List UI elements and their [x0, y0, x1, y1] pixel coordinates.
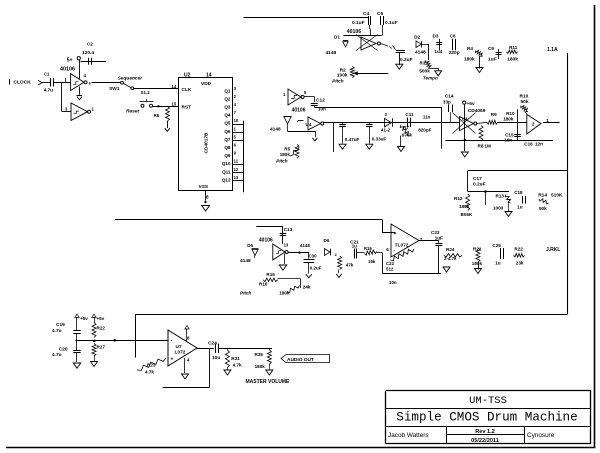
- svg-text:1u4: 1u4: [434, 49, 442, 54]
- svg-text:23k: 23k: [516, 261, 524, 266]
- svg-text:Simple CMOS Drum Machine: Simple CMOS Drum Machine: [396, 411, 577, 425]
- svg-text:R4: R4: [467, 46, 473, 51]
- svg-text:R8: R8: [478, 144, 484, 149]
- svg-text:D6: D6: [324, 238, 330, 243]
- svg-text:Q11: Q11: [222, 169, 231, 174]
- svg-text:Rev 1.2: Rev 1.2: [475, 429, 495, 435]
- svg-text:U7: U7: [176, 344, 182, 350]
- svg-text:1.1A: 1.1A: [547, 47, 558, 53]
- svg-text:R13: R13: [496, 193, 505, 198]
- svg-text:180k: 180k: [503, 117, 514, 122]
- svg-text:1uF: 1uF: [435, 236, 443, 241]
- svg-text:510K: 510K: [551, 192, 563, 198]
- svg-text:40106: 40106: [60, 66, 75, 72]
- svg-text:R22: R22: [97, 326, 106, 331]
- svg-text:1u: 1u: [517, 205, 523, 210]
- svg-text:180k: 180k: [459, 204, 470, 209]
- svg-text:C25: C25: [492, 243, 501, 248]
- svg-text:820pF: 820pF: [418, 127, 431, 132]
- svg-text:C17: C17: [473, 176, 482, 182]
- svg-text:Jacob Watters: Jacob Watters: [388, 432, 429, 439]
- svg-text:1u: 1u: [495, 261, 501, 266]
- svg-text:33p: 33p: [443, 99, 451, 104]
- svg-text:B05K: B05K: [461, 212, 473, 217]
- svg-text:Q2: Q2: [224, 96, 231, 101]
- svg-text:Q9: Q9: [224, 153, 231, 158]
- svg-text:U2: U2: [184, 72, 191, 78]
- svg-text:2-4.7k: 2-4.7k: [444, 256, 457, 261]
- svg-text:24k: 24k: [303, 284, 311, 289]
- svg-text:C13: C13: [284, 227, 293, 233]
- svg-text:180k: 180k: [255, 364, 266, 369]
- svg-text:R9: R9: [491, 112, 497, 117]
- svg-text:R6: R6: [154, 113, 160, 118]
- svg-text:11: 11: [234, 159, 239, 164]
- svg-text:180k: 180k: [279, 290, 290, 295]
- svg-text:4148: 4148: [326, 50, 337, 56]
- svg-text:C22: C22: [386, 261, 395, 266]
- svg-text:180k: 180k: [280, 152, 291, 157]
- svg-text:120.4: 120.4: [82, 50, 94, 56]
- svg-text:R11: R11: [509, 45, 518, 50]
- svg-text:U4: U4: [306, 122, 312, 127]
- svg-text:D2: D2: [414, 34, 420, 39]
- svg-text:15k: 15k: [368, 259, 376, 264]
- svg-text:Q10: Q10: [222, 161, 231, 166]
- svg-text:Reset: Reset: [126, 108, 139, 114]
- svg-text:13: 13: [234, 175, 239, 180]
- svg-text:05/22/2011: 05/22/2011: [471, 438, 499, 444]
- svg-text:R3: R3: [420, 60, 426, 65]
- svg-text:C1: C1: [44, 72, 50, 77]
- svg-text:512: 512: [386, 267, 394, 272]
- svg-text:D3: D3: [433, 34, 439, 39]
- svg-text:7: 7: [420, 237, 423, 242]
- svg-text:VDD: VDD: [201, 81, 212, 87]
- svg-text:40106: 40106: [292, 108, 306, 114]
- svg-text:CD4069: CD4069: [468, 108, 486, 114]
- svg-text:R10: R10: [520, 93, 529, 99]
- svg-text:Tempo: Tempo: [423, 76, 438, 81]
- svg-text:Q8: Q8: [224, 145, 231, 150]
- svg-text:4.7k: 4.7k: [145, 370, 154, 375]
- svg-text:MASTER VOLUME: MASTER VOLUME: [246, 379, 291, 385]
- svg-text:J.RKL: J.RKL: [546, 247, 560, 253]
- svg-text:Pitch: Pitch: [276, 159, 287, 164]
- svg-text:0.47uF: 0.47uF: [345, 137, 360, 142]
- svg-text:R19: R19: [364, 246, 372, 251]
- svg-text:VSS: VSS: [199, 184, 209, 190]
- svg-text:R22: R22: [514, 247, 523, 252]
- svg-text:180k: 180k: [464, 57, 475, 63]
- svg-text:R27: R27: [97, 345, 106, 350]
- svg-text:12: 12: [234, 167, 239, 172]
- svg-text:R2: R2: [340, 67, 346, 73]
- svg-text:50k: 50k: [539, 206, 547, 211]
- svg-text:+: +: [171, 357, 174, 363]
- svg-text:47k: 47k: [346, 262, 354, 267]
- svg-text:11n: 11n: [423, 115, 431, 120]
- svg-text:50k: 50k: [521, 99, 529, 105]
- svg-text:+5v: +5v: [467, 101, 475, 107]
- svg-text:0.2uF: 0.2uF: [400, 57, 413, 63]
- svg-text:40106: 40106: [259, 238, 273, 244]
- svg-text:1: 1: [546, 118, 549, 123]
- svg-text:1u: 1u: [352, 244, 357, 249]
- svg-text:U3: U3: [462, 117, 468, 122]
- svg-text:Q7: Q7: [224, 137, 231, 142]
- svg-text:C12: C12: [316, 98, 325, 104]
- svg-text:CLOCK: CLOCK: [13, 80, 31, 86]
- svg-text:R24: R24: [446, 247, 455, 252]
- svg-text:10: 10: [234, 118, 239, 123]
- svg-text:C11: C11: [405, 112, 414, 117]
- svg-text:13: 13: [284, 242, 289, 247]
- svg-text:+: +: [394, 231, 397, 237]
- svg-text:Pitch: Pitch: [332, 78, 343, 83]
- svg-text:10u: 10u: [212, 355, 220, 361]
- svg-text:UM-TSS: UM-TSS: [469, 395, 507, 407]
- svg-text:C19: C19: [56, 322, 65, 328]
- svg-text:R16: R16: [259, 282, 268, 287]
- svg-text:C23: C23: [431, 230, 440, 235]
- svg-text:Q6: Q6: [224, 129, 231, 134]
- svg-text:976k: 976k: [402, 132, 413, 137]
- svg-text:+5v: +5v: [97, 316, 105, 321]
- svg-text:CLK: CLK: [182, 87, 192, 93]
- svg-text:C2: C2: [87, 42, 93, 47]
- svg-text:C30: C30: [309, 254, 318, 259]
- svg-text:4148: 4148: [300, 243, 310, 248]
- svg-text:S1.2: S1.2: [141, 90, 151, 95]
- svg-text:C18: C18: [514, 190, 523, 195]
- svg-text:Q5: Q5: [224, 121, 231, 126]
- svg-text:1000: 1000: [493, 205, 504, 210]
- svg-text:Pitch: Pitch: [240, 291, 251, 296]
- svg-text:RST: RST: [182, 105, 192, 111]
- svg-text:500k: 500k: [419, 68, 430, 74]
- svg-text:4.7u: 4.7u: [44, 88, 53, 93]
- svg-text:C6: C6: [450, 34, 456, 39]
- svg-text:220p: 220p: [449, 50, 460, 56]
- svg-text:4148: 4148: [270, 127, 281, 133]
- svg-text:R23: R23: [147, 363, 156, 368]
- svg-text:C20: C20: [59, 346, 68, 352]
- svg-text:Cynosure: Cynosure: [527, 432, 555, 439]
- svg-text:C16: C16: [524, 142, 533, 147]
- svg-text:180k: 180k: [507, 57, 518, 63]
- svg-text:R10: R10: [506, 111, 515, 116]
- svg-text:14: 14: [206, 72, 212, 78]
- svg-text:Q4: Q4: [224, 113, 231, 118]
- svg-text:15: 15: [172, 102, 177, 107]
- svg-text:0.1uF: 0.1uF: [385, 20, 398, 26]
- svg-text:4148: 4148: [240, 258, 251, 264]
- svg-text:R35: R35: [255, 352, 264, 357]
- svg-text:10n: 10n: [389, 280, 397, 285]
- svg-text:C4: C4: [363, 11, 369, 17]
- svg-text:4.7k: 4.7k: [233, 363, 242, 368]
- svg-text:R14: R14: [538, 192, 547, 198]
- svg-text:1M: 1M: [485, 144, 492, 149]
- svg-text:8: 8: [206, 195, 209, 200]
- svg-text:14: 14: [172, 84, 177, 89]
- svg-text:41-2: 41-2: [381, 127, 391, 132]
- svg-text:+5v: +5v: [80, 316, 88, 321]
- svg-text:R12: R12: [454, 196, 463, 201]
- svg-text:L072: L072: [175, 350, 186, 356]
- svg-text:Q3: Q3: [224, 105, 231, 110]
- svg-text:4148: 4148: [415, 50, 426, 56]
- svg-text:0.2uF: 0.2uF: [473, 181, 486, 187]
- svg-text:5+: 5+: [67, 58, 73, 64]
- svg-text:0.2uF: 0.2uF: [310, 266, 322, 271]
- svg-text:Q12: Q12: [222, 177, 231, 182]
- svg-text:1uF: 1uF: [488, 57, 497, 63]
- svg-text:AUDIO OUT: AUDIO OUT: [287, 357, 314, 363]
- svg-text:TL072: TL072: [395, 242, 409, 248]
- svg-text:D1: D1: [334, 34, 340, 39]
- svg-text:4.7u: 4.7u: [52, 328, 62, 334]
- svg-text:R31: R31: [231, 356, 240, 361]
- svg-text:Q1: Q1: [224, 88, 231, 93]
- svg-text:C9: C9: [488, 46, 494, 51]
- svg-text:0.33uF: 0.33uF: [372, 137, 387, 142]
- svg-text:R15: R15: [266, 272, 275, 277]
- svg-text:0.1uF: 0.1uF: [352, 20, 365, 26]
- svg-text:D5: D5: [247, 243, 253, 248]
- svg-text:12n: 12n: [535, 142, 543, 147]
- svg-text:C5: C5: [377, 11, 383, 17]
- svg-text:16n: 16n: [504, 138, 512, 143]
- svg-text:4.7u: 4.7u: [52, 352, 62, 358]
- svg-text:Sequencer: Sequencer: [118, 76, 144, 82]
- svg-text:40106: 40106: [347, 29, 362, 35]
- svg-text:R5: R5: [284, 147, 290, 152]
- svg-text:SW1: SW1: [109, 86, 120, 92]
- svg-text:CD4017B: CD4017B: [204, 132, 210, 154]
- svg-text:180k: 180k: [472, 261, 483, 266]
